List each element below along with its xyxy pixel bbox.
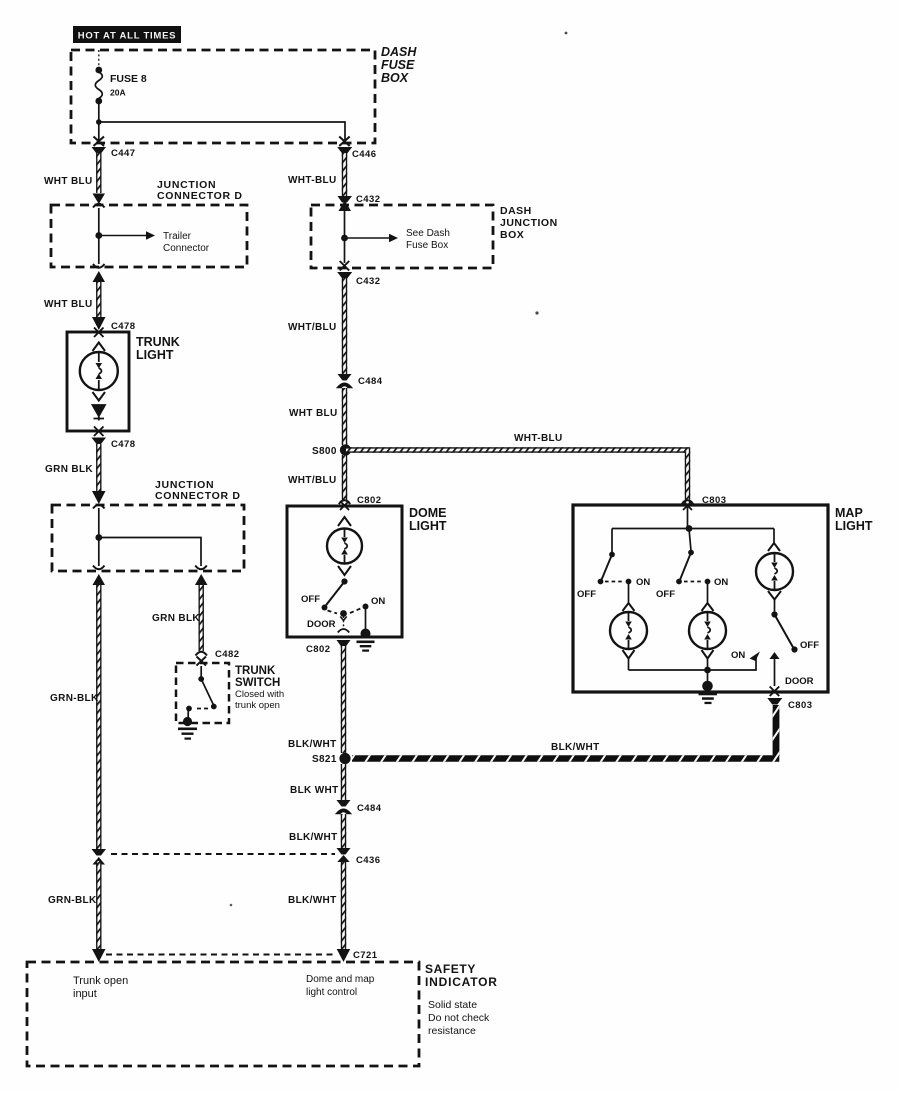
- map switch 2 pivot: [688, 550, 694, 556]
- terminal arrow below junction connector D: [93, 271, 106, 282]
- svg-text:LIGHT: LIGHT: [409, 519, 447, 533]
- map switch 2 dashed link: [684, 581, 702, 583]
- terminal arrow into junction connector D: [93, 194, 106, 205]
- node S821 splice: [339, 753, 350, 764]
- wires inside junction connector D lower: [99, 508, 201, 566]
- scan speck: [230, 904, 233, 907]
- wire BLK/WHT C436 to safety indicator: [341, 862, 346, 949]
- svg-text:C803: C803: [788, 700, 813, 711]
- wire inside dash junction box: [344, 210, 346, 263]
- map lamp 2 feed wire: [707, 582, 709, 604]
- scan speck: [565, 32, 568, 35]
- svg-text:DOOR: DOOR: [785, 676, 814, 687]
- map switch 2 OFF contact: [676, 579, 682, 585]
- svg-text:SAFETY: SAFETY: [425, 962, 476, 976]
- svg-text:MAP: MAP: [835, 506, 863, 520]
- pin cup top: [93, 505, 105, 509]
- svg-text:C446: C446: [352, 149, 377, 160]
- map switch 3 OFF contact: [791, 646, 797, 652]
- connector C436 dashed link: [111, 853, 335, 855]
- dome switch DOOR contact: [340, 610, 347, 617]
- svg-text:Solid state: Solid state: [428, 999, 477, 1011]
- dash fuse box outline: [71, 50, 375, 143]
- svg-text:BOX: BOX: [500, 229, 524, 241]
- svg-text:DASH: DASH: [500, 205, 532, 217]
- connector C478 below trunk light: [92, 438, 136, 451]
- svg-text:ON: ON: [731, 650, 745, 661]
- power tag HOT AT ALL TIMES: [73, 26, 181, 43]
- dome switch OFF contact: [322, 605, 328, 611]
- map lamp 1 chevron top: [623, 603, 635, 611]
- scan speck: [535, 311, 538, 314]
- svg-text:C432: C432: [356, 194, 381, 205]
- ground at trunk switch: [178, 717, 197, 740]
- map light feed bus: [612, 507, 774, 553]
- fuse F8 (FUSE 8, 20A): [95, 50, 102, 122]
- wire GRN-BLK long left run: [96, 585, 101, 849]
- map lamp 3 chevron top: [768, 543, 780, 551]
- svg-text:HOT AT ALL TIMES: HOT AT ALL TIMES: [78, 31, 177, 42]
- map lamp 1 bulb: [610, 612, 647, 649]
- map lamp 2 bulb: [689, 612, 726, 649]
- svg-text:LIGHT: LIGHT: [835, 519, 873, 533]
- svg-text:Trunk open: Trunk open: [73, 975, 128, 987]
- connector C432 into dash junction box: [338, 194, 381, 211]
- svg-text:Connector: Connector: [163, 243, 210, 254]
- dash fuse box label: [381, 45, 417, 85]
- trunk switch label: [235, 665, 284, 711]
- connector C446 (fuse box exit): [337, 137, 376, 161]
- connector C803 below map light: [767, 698, 812, 711]
- pin cups bottom: [93, 566, 207, 570]
- wire BLK/WHT S821 to map light: [352, 710, 776, 759]
- svg-text:resistance: resistance: [428, 1025, 476, 1037]
- svg-text:C436: C436: [356, 855, 381, 866]
- svg-text:WHT-BLU: WHT-BLU: [288, 175, 337, 186]
- svg-text:BOX: BOX: [381, 71, 409, 85]
- dome light bulb: [327, 529, 362, 564]
- map switch 1 pivot: [609, 552, 615, 558]
- wire GRN-BLK below C436: [96, 861, 101, 949]
- svg-text:C484: C484: [358, 376, 383, 387]
- svg-text:OFF: OFF: [656, 589, 675, 600]
- wire BLK/WHT C484 to C436: [341, 814, 346, 848]
- wire WHT BLU C484 to S800: [342, 388, 347, 445]
- svg-text:SWITCH: SWITCH: [235, 677, 280, 689]
- trunk light terminal arrow bottom: [93, 405, 106, 421]
- dome light box: [287, 506, 402, 637]
- svg-text:OFF: OFF: [577, 589, 596, 600]
- svg-text:C484: C484: [357, 803, 382, 814]
- map switch 3 DOOR contact arrow: [770, 652, 780, 659]
- wire BLK WHT S821 down: [341, 764, 346, 800]
- terminal arrow into trunk light, connector C478: [92, 317, 136, 332]
- connector C802 into dome light: [339, 495, 382, 510]
- svg-text:trunk open: trunk open: [235, 700, 280, 711]
- trunk switch box: [176, 663, 229, 723]
- wire GRN BLK trunk light to junction connector D: [96, 444, 101, 491]
- svg-text:LIGHT: LIGHT: [136, 348, 174, 362]
- inline connector C484 (lower): [337, 800, 382, 814]
- map switch 1 dashed link: [605, 581, 623, 583]
- node map feed junction: [686, 525, 693, 532]
- svg-text:light control: light control: [306, 987, 357, 998]
- node fuse output junction: [96, 119, 102, 125]
- node S800 splice: [340, 444, 351, 455]
- terminal arrow into junction connector D lower: [92, 491, 106, 504]
- map switch 3 blade to OFF: [775, 615, 795, 650]
- dome light chevron top: [338, 517, 351, 526]
- map switch 3 pivot: [771, 611, 777, 617]
- dome switch ON contact: [363, 604, 369, 610]
- svg-text:WHT-BLU: WHT-BLU: [514, 433, 563, 444]
- svg-text:C478: C478: [111, 439, 136, 450]
- svg-text:BLK WHT: BLK WHT: [290, 785, 339, 796]
- junction connector D lower pin cup: [93, 264, 105, 268]
- trunk switch contacts: [186, 666, 217, 719]
- map lamp 3 to switch wire: [774, 600, 776, 614]
- wire fuse output to C446 drop: [99, 122, 345, 140]
- svg-text:C447: C447: [111, 148, 136, 159]
- map lamp 1 return wire: [628, 659, 630, 671]
- svg-text:CONNECTOR D: CONNECTOR D: [157, 190, 243, 202]
- svg-text:Closed with: Closed with: [235, 689, 284, 700]
- junction connector D (upper) outline: [51, 205, 247, 267]
- svg-text:C478: C478: [111, 321, 136, 332]
- trunk light pin X top: [94, 328, 104, 338]
- svg-text:BLK/WHT: BLK/WHT: [288, 895, 337, 906]
- svg-text:Trailer: Trailer: [163, 231, 192, 242]
- safety indicator pin label dome and map light control: [306, 974, 375, 998]
- svg-text:TRUNK: TRUNK: [136, 335, 180, 349]
- map switch 1 ON contact: [626, 579, 632, 585]
- svg-text:C802: C802: [357, 495, 382, 506]
- svg-text:GRN-BLK: GRN-BLK: [48, 895, 97, 906]
- dash junction box pin X bottom: [340, 261, 350, 271]
- ground at dome light: [357, 629, 375, 652]
- safety indicator label: [425, 962, 498, 1037]
- ground at map light: [699, 670, 718, 704]
- junction connector D (lower) label: [155, 479, 241, 502]
- svg-text:INDICATOR: INDICATOR: [425, 975, 498, 989]
- inline connector C484: [338, 374, 383, 388]
- arrow to trailer connector: [99, 231, 210, 254]
- dome switch dashed link OFF-DOOR-ON: [328, 609, 361, 614]
- wire WHT-BLU S800 to map light: [346, 450, 688, 503]
- svg-text:BLK/WHT: BLK/WHT: [551, 742, 600, 753]
- map lamp 3 bulb: [756, 553, 793, 590]
- svg-text:C482: C482: [215, 649, 240, 660]
- svg-text:WHT/BLU: WHT/BLU: [288, 475, 337, 486]
- connector C436 left side symbol: [92, 849, 107, 865]
- junction connector D (lower) outline: [52, 505, 244, 571]
- node map return junction: [704, 667, 711, 674]
- inline connector C436 right symbol: [337, 848, 381, 866]
- junction connector D (upper) label: [157, 179, 243, 202]
- svg-text:FUSE 8: FUSE 8: [110, 73, 147, 85]
- dome switch pivot: [341, 578, 347, 584]
- svg-text:WHT BLU: WHT BLU: [44, 176, 93, 187]
- node trailer tap: [95, 232, 102, 239]
- svg-text:input: input: [73, 988, 97, 1000]
- svg-text:Do not check: Do not check: [428, 1012, 490, 1024]
- dash junction box outline: [311, 205, 493, 268]
- wire WHT-BLU C447 to junction connector D: [96, 153, 101, 193]
- map switch 3 ON arrow: [750, 652, 761, 662]
- svg-text:Dome and map: Dome and map: [306, 974, 375, 985]
- svg-text:GRN BLK: GRN BLK: [152, 613, 200, 624]
- map lamp 1 chevron bottom: [623, 650, 635, 659]
- svg-text:C802: C802: [306, 644, 331, 655]
- svg-text:WHT BLU: WHT BLU: [289, 408, 338, 419]
- wire GRN BLK branch to trunk switch: [198, 585, 203, 651]
- map light pin X bottom: [770, 687, 780, 697]
- trunk light bulb: [80, 352, 118, 390]
- map switch 1 blade: [601, 555, 612, 582]
- wire WHT/BLU dash junction box to C484: [342, 278, 347, 374]
- svg-text:20A: 20A: [110, 88, 126, 98]
- svg-text:C432: C432: [356, 276, 381, 287]
- dome DOOR exit wire: [343, 616, 345, 629]
- svg-text:TRUNK: TRUNK: [235, 665, 276, 677]
- connector C803 into map light: [682, 495, 727, 510]
- wire WHT/BLU S800 to dome light: [342, 455, 347, 500]
- svg-text:ON: ON: [636, 577, 650, 588]
- wire map light DOOR exit down: [773, 705, 780, 756]
- safety indicator box: [27, 962, 419, 1066]
- terminal arrow into safety indicator: [92, 949, 106, 962]
- map light box: [573, 505, 828, 692]
- wire BLK/WHT dome light to S821: [341, 646, 346, 753]
- connector C447 (fuse box exit): [92, 137, 136, 160]
- map lamp 2 chevron top: [702, 603, 714, 611]
- svg-text:DASH: DASH: [381, 45, 417, 59]
- connector C802 below dome light: [306, 629, 351, 655]
- trunk light pin X bottom: [94, 427, 104, 437]
- node see-dash tap: [341, 235, 348, 242]
- map switch 1 OFF contact: [598, 579, 604, 585]
- wire WHT BLU to trunk light: [96, 282, 101, 317]
- svg-text:S821: S821: [312, 754, 337, 765]
- node split: [95, 534, 102, 541]
- safety indicator pin label trunk open input: [73, 975, 128, 1000]
- connector C482 at trunk switch: [196, 649, 240, 666]
- svg-text:BLK/WHT: BLK/WHT: [289, 832, 338, 843]
- svg-text:CONNECTOR D: CONNECTOR D: [155, 490, 241, 502]
- wire inside junction connector D: [98, 208, 100, 264]
- arrow to see dash fuse box: [345, 228, 450, 251]
- dash junction box label: [500, 205, 558, 241]
- map lamp 2 return wire: [707, 659, 709, 671]
- trunk light chevron top: [93, 343, 106, 352]
- wire WHT-BLU C446 down: [342, 153, 347, 196]
- svg-text:JUNCTION: JUNCTION: [500, 217, 558, 229]
- trunk light label: [136, 335, 180, 362]
- dome ON to ground wire: [365, 607, 367, 630]
- svg-text:Fuse Box: Fuse Box: [406, 240, 448, 251]
- svg-text:GRN-BLK: GRN-BLK: [50, 693, 99, 704]
- svg-text:BLK/WHT: BLK/WHT: [288, 739, 337, 750]
- map light label: [835, 506, 873, 533]
- svg-text:OFF: OFF: [800, 640, 819, 651]
- svg-text:See Dash: See Dash: [406, 228, 450, 239]
- connector C721 dashed link: [106, 954, 337, 956]
- map lamp 1 feed wire: [628, 582, 630, 604]
- map switch 2 blade: [680, 553, 692, 582]
- svg-text:FUSE: FUSE: [381, 58, 415, 72]
- map switch 3 DOOR wire down: [774, 659, 776, 686]
- connector C432 below dash junction box: [337, 272, 380, 287]
- map lamp 3 chevron bottom: [768, 591, 781, 600]
- terminal arrows below junction connector D lower: [93, 574, 208, 585]
- svg-text:DOME: DOME: [409, 506, 447, 520]
- svg-text:S800: S800: [312, 446, 337, 457]
- svg-text:C721: C721: [353, 950, 378, 961]
- dome switch blade to OFF: [325, 582, 345, 607]
- svg-text:ON: ON: [371, 596, 385, 607]
- svg-text:ON: ON: [714, 577, 728, 588]
- svg-text:DOOR: DOOR: [307, 619, 336, 630]
- svg-text:OFF: OFF: [301, 594, 320, 605]
- map switch 2 ON contact: [705, 579, 711, 585]
- svg-text:WHT/BLU: WHT/BLU: [288, 322, 337, 333]
- map lamp 2 chevron bottom: [702, 650, 714, 659]
- trunk light chevron bottom: [93, 392, 106, 401]
- trunk light box: [67, 332, 129, 431]
- terminal arrow into safety indicator right: [337, 949, 351, 962]
- svg-text:WHT BLU: WHT BLU: [44, 299, 93, 310]
- dome light label: [409, 506, 447, 533]
- svg-text:GRN BLK: GRN BLK: [45, 464, 93, 475]
- map lamp return bus: [629, 656, 757, 670]
- dome light chevron bottom: [338, 566, 351, 575]
